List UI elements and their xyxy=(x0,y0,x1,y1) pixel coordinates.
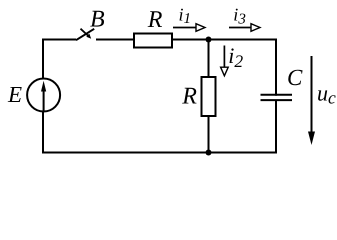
svg-text:C: C xyxy=(287,65,303,90)
svg-text:E: E xyxy=(7,82,22,107)
svg-text:R: R xyxy=(147,7,163,33)
svg-text:R: R xyxy=(181,84,197,110)
svg-text:B: B xyxy=(90,7,105,33)
